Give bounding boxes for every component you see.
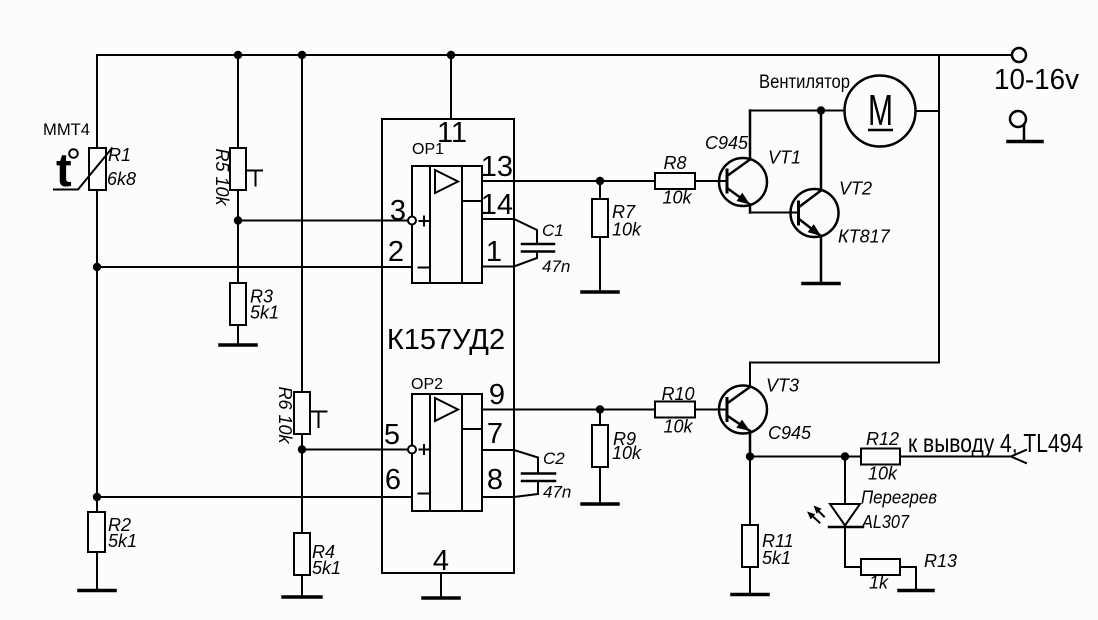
- svg-text:47n: 47n: [543, 483, 571, 502]
- svg-text:10k: 10k: [612, 220, 642, 240]
- svg-text:М: М: [868, 86, 893, 135]
- svg-text:t: t: [56, 143, 72, 196]
- svg-text:к выводу 4, TL494: к выводу 4, TL494: [908, 428, 1083, 458]
- svg-text:5k1: 5k1: [312, 558, 341, 578]
- svg-text:1k: 1k: [869, 573, 889, 593]
- svg-text:13: 13: [481, 151, 513, 183]
- svg-text:R8: R8: [663, 153, 686, 173]
- svg-text:2: 2: [388, 236, 404, 268]
- svg-text:47n: 47n: [542, 257, 570, 276]
- svg-text:14: 14: [481, 189, 513, 221]
- svg-text:10k: 10k: [868, 464, 898, 484]
- svg-text:C2: C2: [543, 449, 565, 468]
- svg-text:9: 9: [489, 379, 505, 411]
- svg-text:C945: C945: [768, 423, 812, 443]
- svg-text:10-16v: 10-16v: [994, 64, 1079, 96]
- svg-text:3: 3: [390, 195, 406, 227]
- svg-text:7: 7: [487, 418, 503, 450]
- svg-text:4: 4: [433, 545, 449, 577]
- svg-text:5: 5: [384, 419, 400, 451]
- svg-text:R13: R13: [924, 551, 957, 571]
- svg-text:ОР2: ОР2: [411, 376, 443, 393]
- svg-text:10k: 10k: [663, 417, 693, 437]
- svg-text:Перегрев: Перегрев: [861, 488, 937, 508]
- svg-text:C1: C1: [542, 221, 564, 240]
- svg-text:R5 10k: R5 10k: [212, 148, 232, 206]
- svg-text:R12: R12: [866, 429, 899, 449]
- svg-text:C945: C945: [705, 133, 749, 153]
- svg-text:5k1: 5k1: [108, 531, 137, 551]
- svg-text:1: 1: [486, 236, 502, 268]
- svg-text:5k1: 5k1: [250, 303, 279, 323]
- svg-text:AL307: AL307: [861, 512, 910, 532]
- svg-text:R1: R1: [108, 145, 131, 165]
- svg-text:6: 6: [385, 464, 401, 496]
- svg-text:MMT4: MMT4: [43, 120, 90, 139]
- svg-text:10k: 10k: [662, 188, 692, 208]
- svg-text:КТ817: КТ817: [838, 227, 891, 247]
- svg-text:VT3: VT3: [766, 376, 799, 396]
- svg-text:R10: R10: [661, 384, 694, 404]
- svg-text:5k1: 5k1: [762, 548, 791, 568]
- svg-text:VT2: VT2: [839, 179, 872, 199]
- svg-text:К157УД2: К157УД2: [387, 324, 505, 356]
- svg-text:ОР1: ОР1: [412, 141, 444, 158]
- svg-text:R6 10k: R6 10k: [275, 386, 295, 444]
- svg-text:VT1: VT1: [768, 148, 801, 168]
- svg-text:10k: 10k: [612, 443, 642, 463]
- svg-text:8: 8: [487, 464, 503, 496]
- svg-text:6k8: 6k8: [107, 169, 136, 189]
- svg-text:Вентилятор: Вентилятор: [759, 72, 850, 93]
